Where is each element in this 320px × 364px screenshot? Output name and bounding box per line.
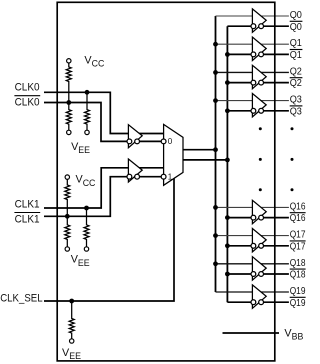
wire Q17 comp [227, 245, 289, 247]
wire CLK_SEL to mux select [44, 178, 174, 301]
wire Q0 true [216, 15, 289, 17]
svg-text:Q2: Q2 [290, 66, 302, 77]
svg-text:Q2: Q2 [290, 78, 302, 89]
resistor R3 (CLK0# to VEE) [66, 103, 71, 131]
svg-text:Q18: Q18 [290, 258, 306, 269]
wire Q16 comp [227, 217, 289, 219]
node R5 tap on CLK1 [84, 206, 89, 211]
wire Q18 comp [227, 273, 289, 275]
svg-text:CLK1: CLK1 [15, 213, 40, 225]
node rail-comp tap Q3 [225, 108, 230, 113]
wire CLK0 true path to mux input 0 [44, 92, 164, 133]
svg-text:Q17: Q17 [290, 230, 306, 241]
label Q0# overline [290, 20, 303, 22]
terminal circle VEE (R2) [85, 130, 89, 134]
node rail-comp tap Q1 [225, 52, 230, 57]
node mux comp output joins rail [225, 158, 230, 163]
svg-text:CLK1: CLK1 [15, 199, 40, 211]
label Q2# overline [290, 77, 303, 79]
svg-text:Q3: Q3 [290, 106, 303, 117]
ellipsis dot inner 3 [259, 188, 262, 191]
label Q19# overline [290, 296, 306, 298]
wire Q19 true [216, 291, 289, 293]
wire CLK0# comp path to mux bubble 0 [44, 103, 161, 142]
wire VBB reference output [223, 332, 280, 334]
svg-text:Q16: Q16 [290, 201, 306, 212]
mux U3 (2:1 clock select) [161, 124, 183, 185]
output buffer Q3 [251, 94, 266, 117]
node CLK_SEL resistor tap [69, 299, 74, 304]
wire Q3 comp [227, 110, 289, 112]
wire distribution rail true [215, 16, 217, 292]
svg-text:Q18: Q18 [290, 270, 306, 281]
node rail-true tap Q18 [213, 261, 218, 266]
wire Q2 comp [227, 82, 289, 84]
output buffer Q18 [251, 257, 266, 280]
node rail-true tap Q16 [213, 205, 218, 210]
label Q16# overline [290, 212, 306, 214]
wire CLK1# comp path to mux bubble 1 [44, 177, 161, 217]
resistor R6 (CLK1# to VEE) [65, 216, 70, 247]
output buffer Q16 [251, 200, 266, 223]
terminal circle VCC (CLK1 bias) [65, 175, 69, 179]
output buffer Q17 [251, 229, 266, 252]
resistor R4 (VCC to CLK1#) [65, 179, 70, 216]
node rail-comp tap Q17 [225, 243, 230, 248]
wire mux true output to rail [183, 149, 216, 151]
resistor R7 (CLK_SEL to VEE) [69, 301, 74, 339]
svg-text:CLK0: CLK0 [15, 82, 40, 94]
label CLK1# overline [14, 212, 40, 214]
wire Q18 true [216, 263, 289, 265]
wire Q3 true [216, 100, 289, 102]
node rail-comp tap Q2 [225, 80, 230, 85]
terminal circle VEE (R5) [84, 247, 88, 251]
label Q3# overline [290, 105, 303, 107]
resistor R1 (VCC to CLK0#) [66, 63, 71, 103]
svg-text:Q19: Q19 [290, 298, 306, 309]
ellipsis dot inner 1 [259, 127, 262, 130]
resistor R5 (CLK1 to VEE) [84, 208, 89, 247]
wire Q16 true [216, 206, 289, 208]
svg-text:Q3: Q3 [290, 95, 303, 106]
terminal circle VEE (R6) [65, 247, 69, 251]
node R4/R6 junction on CLK1# [65, 214, 70, 219]
node R2 tap on CLK0 [85, 90, 90, 95]
node rail-comp tap Q18 [225, 272, 230, 277]
wire Q19 comp [227, 301, 289, 303]
terminal circle VEE (R3) [67, 130, 71, 134]
ellipsis dot outer 3 [291, 188, 294, 191]
ellipsis dot outer 2 [291, 158, 294, 161]
node rail-comp tap Q16 [225, 215, 230, 220]
wire CLK1 true path to mux input 1 [44, 168, 164, 208]
svg-text:Q19: Q19 [290, 286, 306, 297]
svg-text:CLK_SEL: CLK_SEL [0, 293, 42, 305]
wire Q1 true [216, 43, 289, 45]
wire mux comp output to rail [183, 159, 227, 161]
resistor R2 (CLK0 to VEE) [85, 92, 90, 130]
input buffer U2 (CLK1 differential receiver) [127, 159, 142, 182]
label CLK0# overline [14, 95, 40, 97]
node mux true output joins rail [213, 147, 218, 152]
svg-text:Q1: Q1 [290, 50, 302, 61]
node R1/R3 junction on CLK0# [66, 100, 71, 105]
svg-text:Q0: Q0 [290, 10, 303, 21]
svg-text:Q1: Q1 [290, 38, 302, 49]
svg-text:CLK0: CLK0 [15, 96, 40, 108]
label Q17# overline [290, 240, 306, 242]
wire Q1 comp [227, 53, 289, 55]
node rail-true tap Q17 [213, 233, 218, 238]
terminal circle VEE (R7) [70, 339, 74, 343]
svg-text:1: 1 [168, 172, 173, 181]
svg-text:Q16: Q16 [290, 213, 306, 224]
output buffer Q0 [251, 9, 266, 32]
label Q18# overline [290, 268, 306, 270]
wire Q17 true [216, 235, 289, 237]
svg-text:Q0: Q0 [290, 22, 303, 33]
ellipsis dot outer 1 [291, 127, 294, 130]
node rail-true tap Q3 [213, 98, 218, 103]
wire Q0 comp [227, 25, 289, 27]
svg-text:Q17: Q17 [290, 241, 306, 252]
svg-text:0: 0 [168, 137, 173, 146]
label Q1# overline [290, 49, 303, 51]
IC outline box [57, 2, 275, 361]
ellipsis dot inner 2 [259, 158, 262, 161]
input buffer U1 (CLK0 differential receiver) [127, 125, 142, 148]
output buffer Q1 [251, 37, 266, 60]
node rail-true tap Q1 [213, 42, 218, 47]
wire distribution rail comp [226, 26, 228, 302]
output buffer Q2 [251, 65, 266, 88]
output buffer Q19 [251, 285, 266, 308]
terminal circle VCC (CLK0 bias) [67, 59, 71, 63]
node rail-true tap Q2 [213, 70, 218, 75]
wire Q2 true [216, 71, 289, 73]
